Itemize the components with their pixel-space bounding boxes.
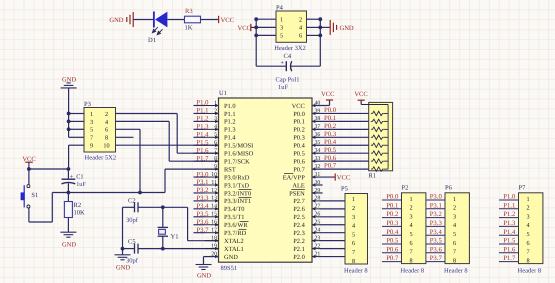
svg-text:ALE: ALE [292, 182, 305, 189]
capacitor C4 Cap Pol1 1uF [256, 53, 320, 91]
svg-text:1: 1 [526, 196, 529, 203]
svg-text:P0.5: P0.5 [293, 151, 305, 158]
capacitor C1 1uF [62, 169, 87, 193]
svg-text:PSEN: PSEN [289, 190, 305, 197]
svg-text:8: 8 [352, 258, 355, 265]
earth ground under U1 pin 20 [196, 257, 219, 280]
svg-text:P0.0: P0.0 [293, 111, 305, 118]
svg-text:9: 9 [90, 143, 93, 150]
wire [201, 19, 219, 21]
svg-text:P3.3/INT1: P3.3/INT1 [224, 198, 251, 205]
power port VCC (EA/VPP pin 31) [312, 173, 350, 181]
svg-text:R3: R3 [185, 8, 193, 15]
power ground (bar style) top-left [109, 12, 133, 27]
svg-text:8: 8 [409, 257, 412, 264]
wires P0.0-P0.7 to resistor network [312, 113, 371, 169]
svg-text:P0.6: P0.6 [293, 158, 305, 165]
svg-text:RST: RST [224, 166, 236, 173]
svg-text:10: 10 [103, 143, 109, 150]
svg-text:VCC: VCC [354, 91, 367, 98]
svg-text:XTAL1: XTAL1 [224, 246, 244, 253]
svg-text:2: 2 [214, 108, 217, 114]
svg-text:P1.5/MOSI: P1.5/MOSI [224, 143, 253, 150]
svg-text:7: 7 [352, 249, 355, 256]
crystal Y1 [158, 207, 179, 248]
svg-text:P3.0/RxD: P3.0/RxD [224, 174, 250, 181]
svg-text:7: 7 [409, 249, 412, 256]
svg-text:16: 16 [211, 220, 217, 226]
wire GND bus down left of P3 [68, 88, 70, 137]
svg-text:5: 5 [352, 231, 355, 238]
svg-text:Header 3X2: Header 3X2 [274, 45, 306, 52]
svg-text:3: 3 [409, 213, 412, 220]
svg-text:P2.0: P2.0 [293, 254, 305, 261]
header P5 (Header 8) [341, 185, 368, 274]
wire P3 pin10 row to U1 P1.5 [69, 144, 84, 146]
svg-text:1: 1 [280, 17, 283, 24]
svg-text:6: 6 [409, 240, 412, 247]
svg-text:14: 14 [211, 204, 217, 210]
svg-text:1uF: 1uF [278, 84, 289, 91]
svg-text:P4: P4 [276, 5, 284, 12]
power port VCC (left of P4) [238, 24, 251, 32]
junction dots [254, 17, 258, 21]
svg-text:Header 8: Header 8 [344, 267, 368, 274]
svg-text:8: 8 [453, 257, 456, 264]
wire down to switch [28, 169, 30, 185]
header P6 (Header 8) [444, 185, 469, 275]
svg-text:3: 3 [453, 213, 456, 220]
wire P4 left pins to bus [256, 18, 276, 20]
svg-text:3: 3 [526, 213, 529, 220]
svg-text:+: + [280, 60, 284, 67]
svg-text:C1: C1 [76, 174, 83, 181]
net labels P3.0-P3.7 (left) [196, 171, 209, 234]
svg-text:1: 1 [214, 100, 217, 106]
svg-text:4: 4 [105, 119, 108, 126]
header P7 (Header 8) [518, 185, 543, 275]
svg-text:D1: D1 [148, 37, 156, 44]
svg-text:8: 8 [214, 156, 217, 162]
svg-text:4: 4 [409, 222, 412, 229]
svg-text:5: 5 [214, 132, 217, 138]
header P4 (Header 3X2) [274, 5, 306, 52]
svg-text:GND: GND [62, 242, 76, 249]
wire P3 pin6 down to reset net [116, 128, 141, 130]
svg-text:P0.3: P0.3 [293, 135, 305, 142]
svg-text:C2: C2 [128, 197, 136, 204]
junction dots [67, 112, 71, 116]
wire right bus [319, 19, 321, 66]
svg-text:P2.3: P2.3 [293, 230, 305, 237]
resistor network R1 [369, 102, 393, 179]
capacitor C2 30pf [123, 197, 188, 224]
svg-text:P2.4: P2.4 [293, 222, 305, 229]
wires U1 P2.7-P2.0 to P5 [320, 201, 346, 257]
wire P3 pin4 to U1 P1.7 [116, 120, 170, 122]
U1 name overlines (EA/VPP, PSEN, INT0, INT1, WR, RD) [239, 174, 305, 230]
net labels P3.0-P3.7 at P6 [426, 194, 446, 263]
svg-text:C5: C5 [128, 238, 136, 245]
svg-text:P3.2/INT0: P3.2/INT0 [224, 190, 251, 197]
svg-text:VCC: VCC [321, 91, 334, 98]
svg-text:P0.5: P0.5 [324, 147, 337, 154]
junction dots [67, 191, 71, 195]
svg-text:5: 5 [453, 231, 456, 238]
svg-text:9: 9 [214, 164, 217, 170]
svg-text:8: 8 [526, 257, 529, 264]
svg-text:2: 2 [105, 111, 108, 118]
svg-text:C4: C4 [284, 53, 292, 60]
wire ALE stub [312, 184, 323, 186]
svg-text:P1.4: P1.4 [224, 135, 236, 142]
wire P4 right pins to bus [307, 18, 321, 20]
svg-text:P1.1: P1.1 [224, 111, 236, 118]
svg-text:6: 6 [526, 240, 529, 247]
svg-text:P0.6: P0.6 [324, 155, 337, 162]
junction dots [27, 167, 31, 171]
svg-text:VCC: VCC [221, 17, 234, 24]
svg-text:1: 1 [352, 196, 355, 203]
svg-text:P0.0: P0.0 [324, 107, 337, 114]
svg-text:2: 2 [526, 205, 529, 212]
svg-text:12: 12 [211, 188, 217, 194]
svg-text:P2.7: P2.7 [293, 198, 305, 205]
svg-text:GND: GND [109, 17, 123, 24]
svg-text:5: 5 [280, 33, 283, 40]
svg-text:Header 8: Header 8 [444, 267, 468, 274]
net labels P1.0-P1.7 at P7 [499, 194, 519, 263]
power ground (bar style) right of P4 [330, 20, 354, 35]
svg-text:3: 3 [280, 25, 283, 32]
wire to RST pin [164, 169, 166, 192]
svg-text:6: 6 [214, 140, 217, 146]
svg-text:P0.7: P0.7 [324, 163, 337, 170]
wire left bus [255, 19, 257, 66]
svg-text:P3.5/T1: P3.5/T1 [224, 214, 244, 221]
svg-text:GND: GND [62, 76, 76, 83]
svg-text:7: 7 [526, 249, 529, 256]
svg-text:P1.0: P1.0 [224, 103, 236, 110]
capacitor C5 30pf [123, 238, 219, 264]
svg-text:1: 1 [90, 111, 93, 118]
net labels P0.0-P0.7 (right) [324, 107, 337, 170]
svg-text:P0.2: P0.2 [324, 123, 336, 130]
svg-text:Header 8: Header 8 [518, 267, 542, 274]
svg-text:VCC: VCC [292, 103, 305, 110]
svg-text:P1.3: P1.3 [224, 127, 236, 134]
svg-text:Header 8: Header 8 [401, 267, 425, 274]
header P2 (Header 8) [401, 185, 426, 275]
svg-text:P2: P2 [402, 185, 409, 192]
U1 left pin stubs and numbers [205, 100, 219, 258]
svg-text:89S51: 89S51 [221, 265, 238, 272]
svg-text:P0.3: P0.3 [324, 131, 337, 138]
svg-text:4: 4 [453, 222, 456, 229]
svg-text:5: 5 [409, 231, 412, 238]
svg-text:P3.7/RD: P3.7/RD [224, 230, 247, 237]
svg-text:4: 4 [299, 25, 302, 32]
svg-text:3: 3 [90, 119, 93, 126]
junction dot [161, 205, 165, 209]
svg-text:6: 6 [352, 240, 355, 247]
junction dot [161, 247, 165, 251]
svg-text:2: 2 [352, 205, 355, 212]
svg-text:P6: P6 [445, 185, 453, 192]
U1 right pin names [283, 103, 306, 261]
svg-text:GND: GND [197, 272, 211, 279]
svg-text:10: 10 [211, 172, 217, 178]
switch S1 [21, 185, 39, 208]
svg-text:Y1: Y1 [171, 234, 179, 241]
svg-text:2: 2 [453, 205, 456, 212]
svg-text:17: 17 [211, 228, 217, 234]
svg-text:P1.7/SCK: P1.7/SCK [224, 158, 250, 165]
svg-text:30pf: 30pf [126, 257, 139, 264]
resistor R2 10K [64, 193, 85, 233]
power port VCC (R1 common) [354, 91, 388, 104]
svg-text:1uF: 1uF [76, 181, 86, 188]
wire C2 to XTAL2 [187, 207, 189, 240]
svg-text:XTAL2: XTAL2 [224, 238, 244, 245]
earth ground under R2 [60, 232, 76, 248]
svg-text:1: 1 [453, 196, 456, 203]
svg-text:2: 2 [299, 17, 302, 24]
svg-text:7: 7 [90, 135, 93, 142]
svg-text:VCC: VCC [337, 174, 350, 181]
header P3 (Header 5X2) [84, 101, 116, 162]
svg-text:3: 3 [214, 116, 217, 122]
svg-text:4: 4 [352, 223, 355, 230]
wire PSEN stub [312, 192, 323, 194]
svg-text:15: 15 [211, 212, 217, 218]
svg-text:P2.6: P2.6 [293, 206, 305, 213]
wire VCC node [29, 168, 69, 170]
wire [133, 19, 153, 21]
svg-text:P1.2: P1.2 [224, 119, 236, 126]
svg-text:P3.1/TxD: P3.1/TxD [224, 182, 249, 189]
svg-text:EA/VPP: EA/VPP [283, 174, 305, 181]
resistor R3 1K [185, 8, 201, 31]
svg-text:1K: 1K [185, 24, 193, 31]
net labels P1.0-P1.7 (left) [196, 100, 209, 163]
wires P3 left pins to bus [69, 113, 84, 115]
power port VCC (pin 40) [312, 91, 334, 105]
svg-text:4: 4 [526, 222, 529, 229]
net labels P0.0-P0.7 at P2 [382, 194, 402, 263]
svg-text:19: 19 [211, 243, 217, 249]
svg-text:R1: R1 [369, 172, 377, 179]
wire bus to ground [320, 26, 330, 28]
svg-text:P2.1: P2.1 [293, 246, 305, 253]
junction dots [318, 17, 322, 21]
U1 left pin names [224, 103, 254, 261]
IC U1 89S51 [219, 90, 313, 272]
svg-text:+: + [69, 173, 73, 180]
svg-text:5: 5 [90, 127, 93, 134]
svg-text:R2: R2 [74, 202, 82, 209]
svg-text:4: 4 [214, 124, 217, 130]
wire cap bus [122, 207, 124, 255]
power port VCC (top-left) [219, 16, 234, 24]
svg-text:P0.1: P0.1 [293, 119, 305, 126]
svg-text:7: 7 [214, 148, 217, 154]
svg-text:GND: GND [116, 264, 130, 271]
svg-text:Cap Pol1: Cap Pol1 [276, 76, 300, 83]
wire VCC to bus [251, 26, 256, 28]
svg-text:GND: GND [340, 25, 354, 32]
svg-text:1: 1 [409, 196, 412, 203]
svg-text:P0.2: P0.2 [293, 127, 305, 134]
svg-text:18: 18 [211, 235, 217, 241]
junction dot [121, 247, 125, 251]
svg-text:GND: GND [224, 254, 238, 261]
svg-text:P0.1: P0.1 [324, 115, 336, 122]
svg-text:3: 3 [352, 214, 355, 221]
svg-text:P1.6/MISO: P1.6/MISO [224, 151, 254, 158]
svg-text:8: 8 [105, 135, 108, 142]
svg-text:6: 6 [105, 127, 108, 134]
wire [167, 19, 184, 21]
svg-text:P2.2: P2.2 [293, 238, 305, 245]
svg-text:S1: S1 [31, 192, 38, 199]
U1 right pin stubs and numbers [312, 100, 321, 258]
svg-text:U1: U1 [219, 90, 227, 97]
LED D1 [148, 12, 167, 45]
power port VCC (left) [22, 156, 35, 169]
wire switch bottom loop [28, 208, 30, 222]
svg-text:7: 7 [453, 249, 456, 256]
svg-text:Header 5X2: Header 5X2 [85, 154, 117, 161]
left label stub wires [194, 106, 205, 233]
wire reset net [52, 192, 165, 194]
svg-text:P2.5: P2.5 [293, 214, 305, 221]
svg-text:P0.4: P0.4 [293, 143, 305, 150]
svg-text:13: 13 [211, 196, 217, 202]
svg-text:6: 6 [299, 33, 302, 40]
wire P3 pin2 to U1 P1.6 [116, 113, 178, 115]
svg-text:11: 11 [211, 180, 217, 186]
svg-text:6: 6 [453, 240, 456, 247]
wire P3 pin8 stub [116, 136, 134, 138]
svg-text:P3.6/WR: P3.6/WR [224, 222, 248, 229]
svg-text:P3: P3 [84, 101, 91, 108]
svg-text:5: 5 [526, 231, 529, 238]
svg-text:2: 2 [409, 205, 412, 212]
svg-text:P0.4: P0.4 [324, 139, 337, 146]
earth ground above P3 [61, 76, 77, 88]
svg-text:10K: 10K [74, 209, 86, 216]
wire MOSI row to U1 [116, 144, 219, 146]
earth ground under caps [115, 255, 131, 271]
svg-text:P3.4/T0: P3.4/T0 [224, 206, 244, 213]
svg-text:P7: P7 [519, 185, 527, 192]
svg-text:P5: P5 [341, 185, 348, 192]
svg-text:30pf: 30pf [126, 217, 139, 224]
svg-text:P0.7: P0.7 [293, 166, 305, 173]
svg-text:VCC: VCC [238, 25, 251, 32]
